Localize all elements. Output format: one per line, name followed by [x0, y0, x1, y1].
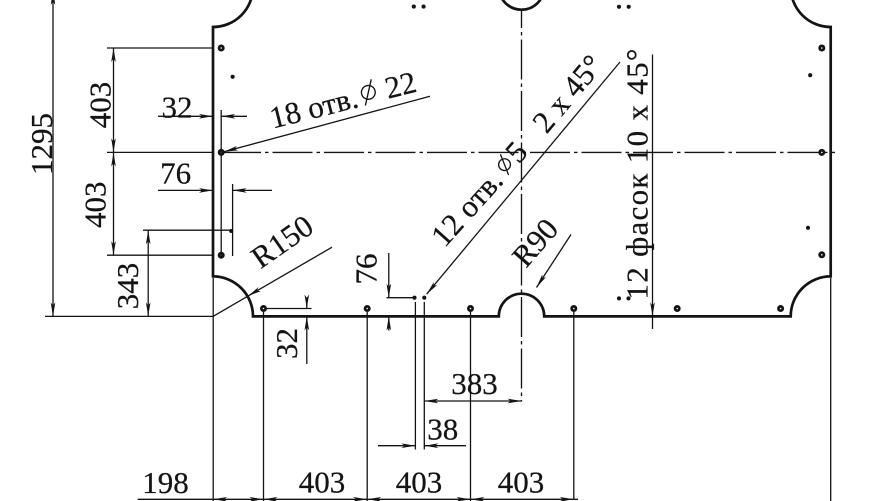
- svg-text:403: 403: [498, 465, 545, 500]
- plate outline: [213, 0, 831, 316]
- hole d22 #7: [260, 305, 267, 312]
- dimension 76 left: [158, 156, 272, 257]
- extension line 32 bottom: [266, 308, 312, 310]
- hole d5 #5: [412, 5, 416, 9]
- hole d22 #2: [218, 149, 225, 156]
- leader 18 otv. d22: [223, 64, 430, 154]
- chain arrows seg2: [264, 497, 368, 501]
- svg-text:403: 403: [83, 82, 118, 129]
- leader R150: [213, 208, 332, 317]
- svg-text:76: 76: [160, 156, 191, 191]
- hole d22 #11: [674, 305, 681, 312]
- extension line centerline row: [107, 151, 212, 153]
- hole d5 #2: [229, 229, 233, 233]
- svg-text:12 фасок 10 х 45°: 12 фасок 10 х 45°: [620, 47, 655, 299]
- hole d5 #6: [422, 5, 426, 9]
- hole d5 #8: [627, 5, 631, 9]
- extension line d5 hole b: [423, 302, 425, 450]
- extension line plate right edge: [830, 278, 832, 501]
- hole d22 #10: [570, 305, 577, 312]
- dimension 403 bottom 1 text: [299, 465, 346, 500]
- hole d22 #4: [818, 45, 825, 52]
- hole d5 #9: [412, 296, 416, 300]
- svg-text:32: 32: [162, 90, 193, 125]
- dimension 343: [110, 230, 151, 316]
- extension line bottom hole 1: [263, 312, 265, 501]
- svg-text:383: 383: [451, 366, 498, 401]
- dimension 32 left: [158, 90, 247, 257]
- dimension 403 bottom 2 text: [396, 465, 443, 500]
- svg-text:343: 343: [110, 263, 145, 310]
- svg-text:198: 198: [142, 465, 189, 500]
- dimension 403 lower-left: [78, 152, 116, 255]
- chain arrows seg4: [471, 497, 574, 501]
- hole d22 #9: [467, 305, 474, 312]
- extension line bottom hole 2: [366, 312, 368, 501]
- extension line small-hole row: [143, 229, 230, 231]
- extension line row1: [107, 47, 213, 49]
- dimension 403 bottom 3 text: [498, 465, 545, 500]
- dimension 1295: [24, 0, 59, 316]
- leader R90: [505, 212, 571, 289]
- hole d22 #3: [218, 252, 225, 259]
- dimension 383: [424, 366, 521, 403]
- hole d5 #12: [626, 296, 630, 300]
- hole d22 #6: [818, 251, 825, 258]
- extension line row3: [107, 254, 213, 256]
- chain arrows seg1: [213, 497, 263, 501]
- svg-text:403: 403: [396, 465, 443, 500]
- extension line bottom hole 4: [573, 312, 575, 499]
- label 2 x 45deg: [525, 48, 610, 139]
- extension line 76 bottom: [387, 297, 414, 299]
- leader 12 fasok: [620, 47, 655, 329]
- dimension 403 upper-left: [83, 48, 118, 152]
- chain arrows seg3: [367, 497, 470, 501]
- hole d5 #1: [231, 75, 235, 79]
- svg-text:38: 38: [427, 412, 458, 447]
- hole d5 #3: [808, 73, 812, 77]
- hole d22 #12: [777, 305, 784, 312]
- svg-text:32: 32: [269, 328, 304, 359]
- extension line bottom hole 3: [470, 312, 472, 501]
- extension line plate left edge: [212, 278, 214, 501]
- extension line bottom edge left: [45, 315, 213, 317]
- dimension 76 bottom: [349, 253, 392, 331]
- horizontal centerline: [221, 151, 839, 153]
- svg-text:76: 76: [349, 254, 384, 285]
- dimension 198 text: [142, 465, 189, 500]
- vertical centerline: [521, 11, 523, 402]
- hole d22 #1: [218, 45, 225, 52]
- hole d22 #5: [818, 149, 825, 156]
- extension line d5 hole a: [414, 302, 416, 450]
- dimension 32 bottom: [269, 295, 309, 365]
- hole d22 #8: [364, 305, 371, 312]
- svg-text:403: 403: [299, 465, 346, 500]
- hole d5 #11: [617, 296, 621, 300]
- dimension 38: [378, 412, 466, 449]
- hole d5 #7: [617, 5, 621, 9]
- svg-text:1295: 1295: [24, 113, 59, 175]
- svg-text:403: 403: [78, 181, 113, 228]
- leader 12 otv. d5: [423, 62, 620, 296]
- hole d5 #10: [422, 296, 426, 300]
- hole d5 #4: [806, 226, 810, 230]
- chain dimension line: [138, 498, 578, 500]
